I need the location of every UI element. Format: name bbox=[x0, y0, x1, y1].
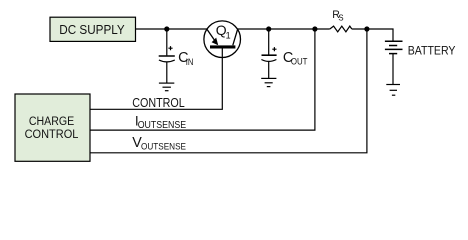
svg-text:1: 1 bbox=[226, 30, 231, 40]
svg-text:OUTSENSE: OUTSENSE bbox=[141, 142, 186, 153]
svg-text:IN: IN bbox=[186, 57, 194, 68]
svg-text:DC SUPPLY: DC SUPPLY bbox=[59, 22, 125, 37]
svg-text:CONTROL: CONTROL bbox=[25, 127, 79, 141]
svg-text:OUTSENSE: OUTSENSE bbox=[138, 120, 187, 131]
svg-text:BATTERY: BATTERY bbox=[408, 43, 456, 57]
svg-text:S: S bbox=[338, 14, 343, 23]
svg-text:OUT: OUT bbox=[291, 57, 308, 68]
svg-text:CONTROL: CONTROL bbox=[132, 96, 185, 110]
